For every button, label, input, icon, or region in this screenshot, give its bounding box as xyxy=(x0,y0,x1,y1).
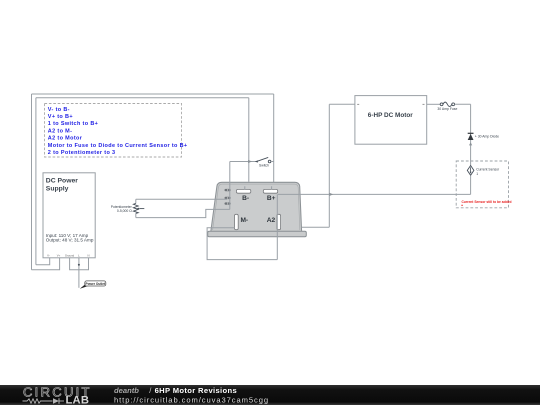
wire V- left riser xyxy=(35,98,37,265)
wire sensor to corner xyxy=(470,175,472,194)
current sensor CS1 xyxy=(467,166,500,176)
red note text xyxy=(461,200,511,206)
svg-text:30 Amp Fuse: 30 Amp Fuse xyxy=(437,107,457,111)
relay terminal B+ slot xyxy=(263,189,277,193)
svg-text:Power Outlet: Power Outlet xyxy=(85,282,106,286)
wire pot top to pin 2 xyxy=(136,198,227,200)
wire V- terminal down-left xyxy=(36,258,50,265)
relay K1 body xyxy=(208,182,307,236)
svg-text:V+ to B+: V+ to B+ xyxy=(48,114,73,120)
wire B+ to current sensor xyxy=(278,193,471,195)
svg-text:+ 30 Amp Diode: + 30 Amp Diode xyxy=(475,135,499,139)
svg-text:B+: B+ xyxy=(267,195,276,202)
wire V+ terminal down-left xyxy=(32,258,60,270)
footer text xyxy=(114,386,269,405)
svg-text:Ground: Ground xyxy=(65,254,75,258)
current sensor dashed region xyxy=(456,161,508,208)
svg-text:LAB: LAB xyxy=(66,395,90,405)
junction arrow at B- drop xyxy=(248,160,252,163)
junction arrow below diode xyxy=(469,142,472,145)
wire pins riser xyxy=(229,162,231,210)
wire Ground terminal xyxy=(70,258,79,270)
wire L terminal to outlet xyxy=(78,258,80,288)
wire motor right lead xyxy=(427,103,441,105)
svg-text:V+: V+ xyxy=(57,254,61,258)
svg-text:A2 to Motor: A2 to Motor xyxy=(48,136,83,142)
fuse F1 xyxy=(437,102,457,111)
wire bottom loop xyxy=(207,228,277,260)
wire right drop through diode xyxy=(470,104,472,165)
relay terminal A2 slot xyxy=(277,214,281,229)
relay pin 1 xyxy=(225,189,231,191)
svg-text:0-5,000 Ω: 0-5,000 Ω xyxy=(117,209,132,213)
svg-text:V- to B-: V- to B- xyxy=(48,107,70,113)
svg-text:1 to Switch to B+: 1 to Switch to B+ xyxy=(48,121,98,127)
junction arrow on sensor wire xyxy=(329,193,333,196)
wire V+ drop to B+ xyxy=(273,94,275,188)
svg-text:N: N xyxy=(87,254,89,258)
svg-text:Switch: Switch xyxy=(259,163,269,167)
junction dot L xyxy=(78,264,80,266)
wire motor drop to relay xyxy=(301,226,329,228)
svg-text:B-: B- xyxy=(242,195,249,202)
wire V+ left riser xyxy=(31,94,33,270)
svg-text:V-: V- xyxy=(47,254,50,258)
svg-text:Current Sensor still to be add: Current Sensor still to be added xyxy=(462,200,512,204)
DC power supply PS1 xyxy=(43,173,95,258)
svg-text:Output: 48 V; 31.5 Amp: Output: 48 V; 31.5 Amp xyxy=(46,238,94,243)
wire V+ top run xyxy=(32,93,274,95)
svg-text:DC Power: DC Power xyxy=(46,178,78,185)
svg-text:1: 1 xyxy=(476,172,478,176)
wire V- top run xyxy=(36,97,249,99)
relay pin 3 xyxy=(225,202,231,204)
wire V- drop to B- xyxy=(248,98,250,182)
wire N terminal xyxy=(79,258,89,270)
power outlet flag xyxy=(80,281,106,289)
svg-text:Supply: Supply xyxy=(46,185,69,192)
wire switch to V+ drop xyxy=(271,161,274,163)
wire A2 drop xyxy=(276,194,278,259)
motor M1 box xyxy=(355,96,427,145)
wire motor left lead xyxy=(329,103,355,105)
footer bar xyxy=(0,385,540,405)
wire B+ stub xyxy=(271,186,273,189)
diode D1 xyxy=(468,133,499,140)
relay pin 2 xyxy=(225,197,231,199)
svg-text:deantb / 6HP Motor Revisions: deantb / 6HP Motor Revisions xyxy=(114,386,237,395)
svg-text:A2 to M-: A2 to M- xyxy=(48,129,73,135)
svg-text:2 to Potentiometer to 3: 2 to Potentiometer to 3 xyxy=(48,150,116,156)
svg-text:A2: A2 xyxy=(267,217,276,224)
switch SW1 xyxy=(255,157,271,167)
svg-text:Current Sensor: Current Sensor xyxy=(476,167,500,171)
svg-text:M-: M- xyxy=(240,217,248,224)
wire to switch xyxy=(230,161,256,163)
wire pot bottom run xyxy=(136,209,230,217)
wire fuse to corner xyxy=(455,103,471,105)
relay terminal B- slot xyxy=(236,189,250,193)
potentiometer R1 xyxy=(111,199,145,217)
svg-text:6-HP DC Motor: 6-HP DC Motor xyxy=(368,112,413,119)
svg-text:http://circuitlab.com/cuva37ca: http://circuitlab.com/cuva37cam5cgg xyxy=(114,395,269,404)
circuitlab logo xyxy=(23,384,90,405)
svg-text:Motor to Fuse to Diode to Curr: Motor to Fuse to Diode to Current Sensor… xyxy=(48,143,188,149)
wire motor left drop xyxy=(328,104,330,227)
annotation notes box xyxy=(45,104,188,158)
wire B- stub xyxy=(244,186,246,189)
relay terminal M- slot xyxy=(235,214,239,229)
